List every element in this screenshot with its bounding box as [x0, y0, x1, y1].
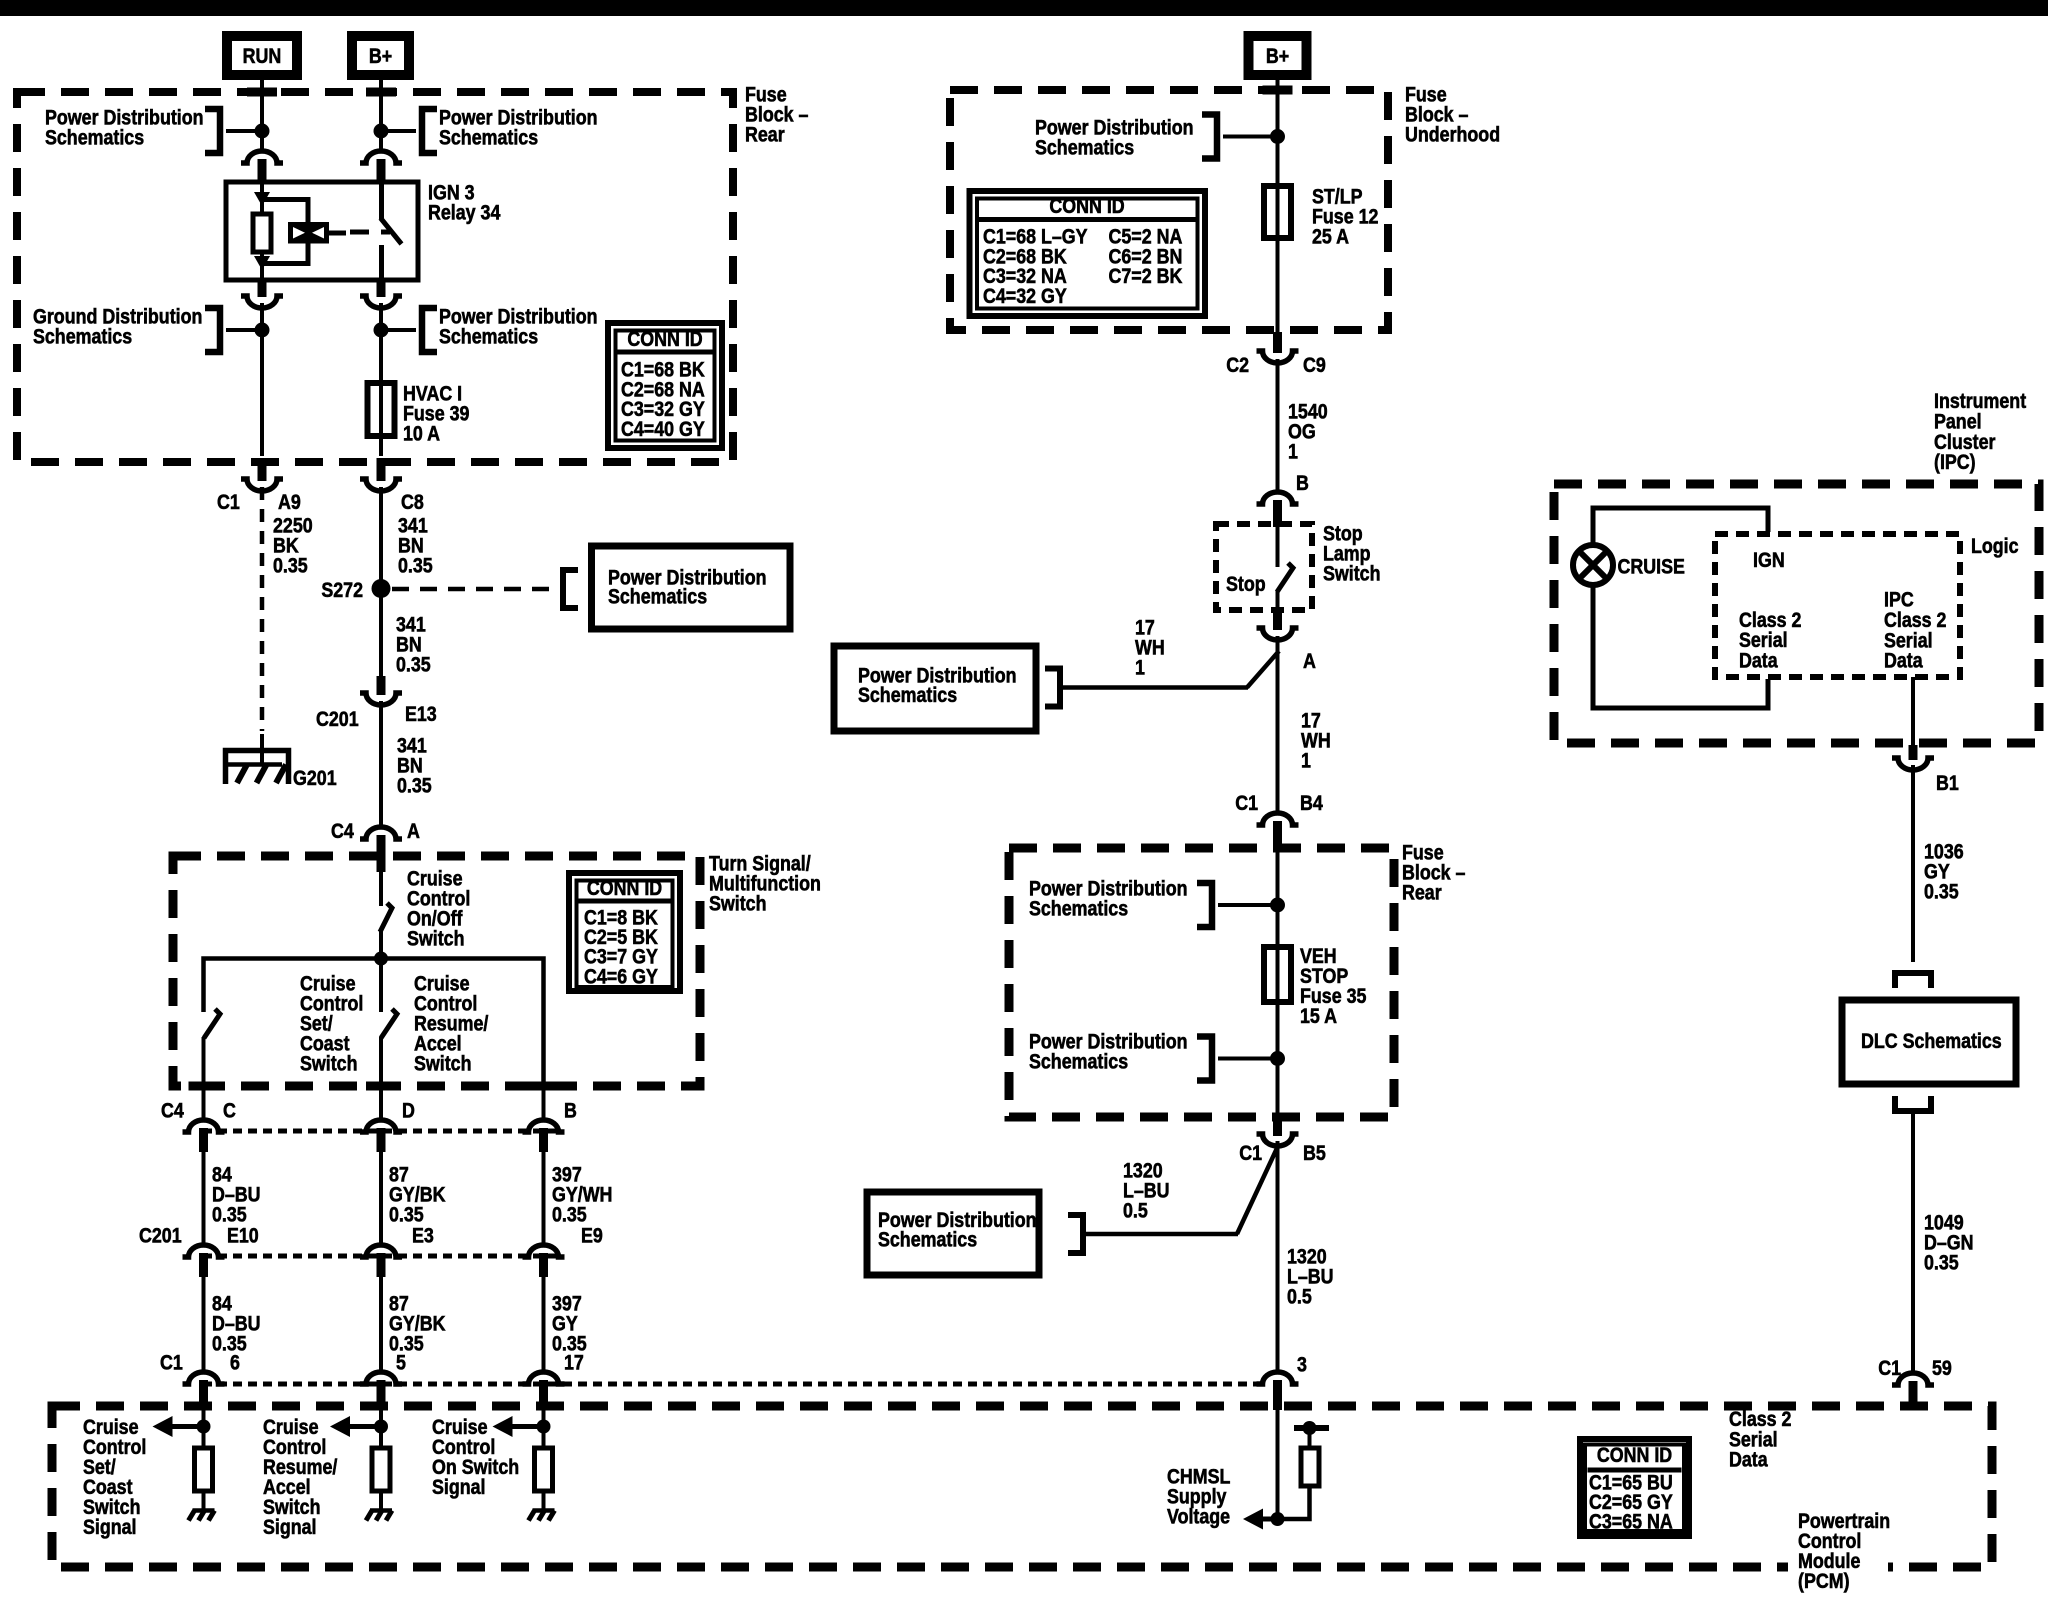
connector pin 17	[523, 1372, 565, 1384]
svg-text:C1: C1	[160, 1351, 183, 1375]
pcm input wire 1	[202, 1410, 206, 1448]
svg-text:(PCM): (PCM)	[1798, 1570, 1850, 1594]
relay coil link loop	[262, 200, 308, 223]
connector pin B1 out of IPC	[1909, 745, 1918, 760]
connector pin 6	[183, 1372, 225, 1384]
svg-text:Signal: Signal	[83, 1516, 137, 1540]
connector pin B into stop lamp switch	[1257, 492, 1299, 504]
connector table CONN ID (fuse block rear)	[608, 323, 722, 448]
cruise lamp circuit loop bottom	[1593, 584, 1768, 708]
svg-text:C3=65 NA: C3=65 NA	[1589, 1510, 1673, 1534]
svg-text:0.5: 0.5	[1123, 1199, 1148, 1223]
resume/accel switch lower wire	[379, 1037, 383, 1120]
stop lamp switch blade	[1277, 563, 1293, 592]
svg-text:C4=32 GY: C4=32 GY	[983, 285, 1067, 309]
node junction ground distribution	[255, 323, 270, 338]
svg-text:E9: E9	[581, 1224, 603, 1248]
svg-text:C1: C1	[217, 491, 240, 515]
stop lamp switch upper wire	[1276, 527, 1280, 567]
wire 1036 GY	[1911, 765, 1915, 962]
cruise resume/accel switch upper wire	[379, 958, 383, 1012]
wire to power distribution bracket 2	[381, 129, 416, 133]
wire 84 D-BU lower	[202, 1277, 206, 1373]
relay linkage dashed line	[350, 230, 390, 235]
wire relay to HVAC fuse	[379, 303, 383, 384]
wire 1320 L-BU horizontal	[1083, 1232, 1238, 1237]
svg-text:Data: Data	[1729, 1448, 1768, 1472]
powertrain control module box	[52, 1406, 1992, 1567]
svg-text:(IPC): (IPC)	[1934, 451, 1976, 475]
cruise set/coast switch blade	[204, 1009, 220, 1038]
svg-text:Schematics: Schematics	[33, 325, 132, 349]
chmsl pull-up resistor	[1301, 1448, 1319, 1486]
svg-text:DLC Schematics: DLC Schematics	[1861, 1030, 2002, 1054]
svg-text:1: 1	[1135, 656, 1145, 680]
relay linkage stub	[329, 231, 346, 236]
svg-text:E13: E13	[405, 703, 437, 727]
ground (pcm internal) 3	[533, 1508, 555, 1513]
node junction power distribution (rear top)	[1270, 898, 1285, 913]
wire fuse 12 to C2	[1276, 238, 1280, 332]
connector C4 pin A into multifunction switch	[360, 827, 402, 839]
svg-text:59: 59	[1932, 1357, 1952, 1381]
ipc serial data wire	[1911, 677, 1915, 745]
node junction B+ / power distribution	[374, 124, 389, 139]
relay coil arrow top	[254, 192, 270, 206]
signal arrow 2	[342, 1424, 381, 1429]
svg-text:Switch: Switch	[414, 1052, 471, 1076]
cruise control on/off switch blade	[380, 903, 392, 932]
node junction power distribution (rear bottom)	[1270, 1051, 1285, 1066]
svg-text:Schematics: Schematics	[858, 684, 957, 708]
wire 17 WH down to C1 B4	[1276, 636, 1280, 813]
connector C201 pin E13	[377, 676, 386, 695]
connector pin out of relay (switch side)	[377, 278, 386, 297]
wire 1540 OG	[1276, 359, 1280, 492]
wire 87 GY/BK lower	[379, 1277, 383, 1373]
svg-text:IGN: IGN	[1753, 549, 1785, 573]
svg-text:RUN: RUN	[243, 45, 282, 69]
cruise indicator lamp	[1573, 545, 1613, 585]
set/coast switch lower wire	[202, 1037, 206, 1120]
svg-text:B: B	[1296, 472, 1309, 496]
ground G201 symbol	[226, 751, 289, 785]
off-page bracket power distribution 1	[205, 109, 220, 153]
node junction on/off to bus	[374, 952, 388, 966]
relay switch lower wire	[379, 245, 384, 278]
svg-text:C: C	[223, 1099, 236, 1123]
svg-text:17: 17	[564, 1351, 584, 1375]
relay coil branch wire	[260, 184, 264, 214]
wire B+ feed (left)	[379, 80, 383, 150]
svg-text:Switch: Switch	[407, 927, 464, 951]
svg-text:A9: A9	[278, 491, 301, 515]
svg-text:Switch: Switch	[1323, 562, 1380, 586]
power terminal RUN	[227, 36, 297, 75]
svg-text:B5: B5	[1303, 1142, 1326, 1166]
svg-text:0.35: 0.35	[398, 554, 433, 578]
connector row C201 dotted line	[203, 1254, 560, 1259]
pull-up resistor 2	[372, 1448, 390, 1491]
turn signal multifunction switch box	[173, 856, 700, 1086]
relay switch blade	[381, 218, 402, 244]
reference box Power Distribution Schematics (S272)	[592, 546, 791, 629]
ground (pcm internal) 2	[370, 1508, 392, 1513]
wire B4 to fuse 35	[1276, 852, 1280, 947]
svg-text:C1: C1	[1239, 1142, 1262, 1166]
node junction pcm signal 2	[374, 1420, 388, 1434]
off-page bracket power distribution 3	[422, 308, 437, 352]
svg-text:0.35: 0.35	[396, 653, 431, 677]
svg-text:Data: Data	[1739, 649, 1778, 673]
pull-up resistor 1	[195, 1448, 213, 1491]
fuse block - rear box (left)	[17, 92, 733, 462]
relay coil arrow bottom	[254, 256, 270, 270]
node junction power distribution 3	[374, 323, 389, 338]
connector table CONN ID (underhood)	[970, 191, 1206, 316]
wire fuse 35 to C1 B5	[1276, 1002, 1280, 1113]
splice S272	[372, 579, 391, 598]
wire 397 GY/WH upper	[542, 1152, 546, 1246]
off-page bracket (17 WH)	[1045, 669, 1060, 707]
signal arrow 3	[505, 1424, 544, 1429]
svg-text:C8: C8	[401, 491, 424, 515]
fuse block - underhood box	[950, 90, 1388, 330]
wire to power distribution bracket 3	[381, 328, 416, 332]
stop lamp switch lower wire	[1276, 591, 1280, 608]
svg-text:C4: C4	[331, 820, 354, 844]
svg-text:1: 1	[1301, 749, 1311, 773]
svg-text:CONN ID: CONN ID	[1049, 195, 1124, 219]
fuse F12 ST/LP	[1264, 186, 1291, 238]
wire 17 WH horizontal	[1060, 685, 1248, 690]
fuse F35 VEH STOP	[1264, 947, 1291, 1002]
wire RUN feed	[260, 80, 264, 150]
wire B column to connector	[542, 1086, 546, 1120]
svg-text:B4: B4	[1300, 792, 1323, 816]
svg-text:A: A	[1303, 650, 1316, 674]
connector pin C	[183, 1120, 225, 1132]
svg-text:C4=6 GY: C4=6 GY	[584, 965, 658, 989]
wire to bracket (rear bottom)	[1218, 1057, 1278, 1061]
node junction pcm signal 3	[537, 1420, 551, 1434]
connector pin 3 into PCM	[1257, 1372, 1299, 1384]
top border bar	[0, 0, 2048, 16]
svg-text:6: 6	[230, 1351, 240, 1375]
svg-text:E10: E10	[227, 1224, 259, 1248]
svg-text:S272: S272	[321, 579, 363, 603]
connector C8 pin out of fuse block	[377, 458, 386, 481]
chmsl resistor top lead	[1308, 1428, 1312, 1448]
node junction pcm signal 1	[197, 1420, 211, 1434]
off-page bracket power distribution 2	[422, 109, 437, 153]
dlc top bracket	[1895, 973, 1931, 988]
svg-text:0.5: 0.5	[1287, 1285, 1312, 1309]
svg-text:Data: Data	[1884, 649, 1923, 673]
svg-text:Underhood: Underhood	[1405, 123, 1500, 147]
wire 84 D-BU upper	[202, 1152, 206, 1246]
svg-text:15 A: 15 A	[1300, 1004, 1337, 1028]
connector row C4 dotted line	[203, 1129, 560, 1134]
reference box Power Distribution Schematics (1320)	[867, 1192, 1039, 1275]
svg-text:Schematics: Schematics	[45, 126, 144, 150]
power terminal B+ (middle)	[1249, 36, 1307, 75]
svg-text:10 A: 10 A	[403, 422, 440, 446]
pcm input wire 2	[379, 1410, 383, 1448]
svg-text:Switch: Switch	[300, 1052, 357, 1076]
svg-text:C1: C1	[1235, 792, 1258, 816]
svg-text:Rear: Rear	[745, 123, 785, 147]
svg-text:A: A	[407, 820, 420, 844]
chmsl resistor terminal bar	[1294, 1425, 1329, 1431]
connector pin E10	[183, 1245, 225, 1257]
ground (pcm internal) 1	[193, 1508, 215, 1513]
cruise on/off switch lower wire	[379, 930, 383, 958]
svg-text:Schematics: Schematics	[1029, 1050, 1128, 1074]
relay switch upper wire	[379, 184, 384, 219]
connector C2 pin C9 out of underhood block	[1273, 332, 1282, 353]
svg-text:B: B	[564, 1099, 577, 1123]
connector pin B	[523, 1120, 565, 1132]
off-page bracket power distribution (rear top)	[1197, 883, 1212, 927]
connector pin into relay (switch side)	[360, 151, 402, 163]
wire 341 BN middle	[379, 593, 383, 676]
dashed reference line from S272	[392, 587, 553, 592]
svg-text:Signal: Signal	[432, 1476, 486, 1500]
svg-text:5: 5	[396, 1351, 406, 1375]
resistor lead 1	[202, 1491, 206, 1509]
svg-text:CRUISE: CRUISE	[1618, 555, 1685, 579]
svg-text:Schematics: Schematics	[1035, 136, 1134, 160]
svg-text:Schematics: Schematics	[878, 1228, 977, 1252]
wire relay to ground distribution node	[260, 303, 264, 456]
off-page bracket power distribution (underhood)	[1202, 115, 1217, 159]
cruise resume/accel switch blade	[381, 1009, 397, 1038]
wire 17 WH diagonal	[1247, 651, 1279, 688]
fuse block - rear box (middle)	[1009, 848, 1394, 1117]
wire to power distribution bracket	[226, 129, 262, 133]
svg-text:Schematics: Schematics	[608, 585, 707, 609]
off-page bracket S272 power distribution	[563, 570, 578, 608]
svg-text:0.35: 0.35	[389, 1332, 424, 1356]
svg-text:Voltage: Voltage	[1167, 1505, 1230, 1529]
svg-text:C4: C4	[161, 1099, 184, 1123]
svg-text:C2: C2	[1226, 354, 1249, 378]
svg-text:Switch: Switch	[709, 892, 766, 916]
relay K34 IGN 3 box	[226, 182, 418, 280]
reference box Power Distribution Schematics (17 WH)	[834, 646, 1036, 731]
relay coil wire lower	[260, 252, 264, 278]
svg-text:3: 3	[1297, 1353, 1307, 1377]
connector row C1 dotted line	[203, 1382, 1262, 1387]
resistor lead 2	[379, 1491, 383, 1509]
relay coil resistor	[253, 214, 271, 252]
off-page bracket ground distribution	[205, 308, 220, 352]
connector pin E9	[523, 1245, 565, 1257]
wire 1320 L-BU diagonal	[1237, 1146, 1278, 1234]
instrument panel cluster box	[1554, 484, 2039, 743]
svg-text:B1: B1	[1936, 772, 1959, 796]
cruise lamp circuit loop top	[1593, 508, 1768, 546]
wire B+ feed (middle)	[1276, 80, 1280, 186]
power terminal B+ (left)	[352, 36, 409, 75]
svg-text:0.35: 0.35	[273, 554, 308, 578]
svg-text:Schematics: Schematics	[439, 126, 538, 150]
connector C1 pin 59 into PCM	[1892, 1373, 1934, 1385]
svg-text:Schematics: Schematics	[1029, 897, 1128, 921]
wire into ground	[260, 734, 264, 764]
chmsl arrow	[1255, 1517, 1278, 1522]
pcm input wire 3	[542, 1410, 546, 1448]
ipc logic box	[1715, 534, 1960, 677]
svg-text:Relay 34: Relay 34	[428, 201, 501, 225]
wire 1049 D-GN	[1911, 1111, 1915, 1374]
svg-text:D: D	[402, 1099, 415, 1123]
wire to ground distribution bracket	[226, 328, 262, 332]
connector pin out of relay (coil side)	[258, 278, 267, 297]
svg-text:C7=2 BK: C7=2 BK	[1109, 265, 1183, 289]
svg-text:CONN ID: CONN ID	[1597, 1444, 1672, 1468]
connector table CONN ID (multifunction switch)	[569, 873, 680, 991]
svg-text:0.35: 0.35	[1924, 1251, 1959, 1275]
connector pin D	[360, 1120, 402, 1132]
svg-text:B+: B+	[369, 45, 392, 69]
connector pin 5	[360, 1372, 402, 1384]
reference box DLC Schematics	[1842, 1000, 2016, 1084]
svg-text:Schematics: Schematics	[439, 325, 538, 349]
svg-text:E3: E3	[412, 1224, 434, 1248]
connector pin into relay (coil side)	[241, 151, 283, 163]
relay armature box with X	[288, 222, 329, 244]
node junction B+ / power distribution (underhood)	[1270, 129, 1285, 144]
pcm chmsl wire	[1276, 1410, 1280, 1519]
svg-text:C201: C201	[316, 708, 359, 732]
wire 341 BN upper	[379, 487, 383, 584]
wire 341 BN lower	[379, 701, 383, 827]
svg-text:25 A: 25 A	[1312, 225, 1349, 249]
node junction chmsl resistor top	[1303, 1421, 1317, 1435]
svg-text:Signal: Signal	[263, 1516, 317, 1540]
svg-text:Stop: Stop	[1226, 573, 1266, 597]
dlc bottom bracket	[1895, 1096, 1931, 1111]
svg-text:C201: C201	[139, 1224, 182, 1248]
svg-text:CONN ID: CONN ID	[587, 877, 662, 901]
resistor lead 3	[542, 1491, 546, 1509]
svg-text:Rear: Rear	[1402, 881, 1442, 905]
wire HVAC fuse to C8	[379, 436, 383, 456]
signal arrow 1	[165, 1424, 204, 1429]
off-page bracket power distribution (rear bottom)	[1197, 1037, 1212, 1081]
connector pin A out of stop lamp switch	[1273, 608, 1282, 630]
connector C1 pin B5 out of fuse block rear	[1273, 1113, 1282, 1136]
svg-text:G201: G201	[293, 767, 337, 791]
svg-text:1: 1	[1288, 440, 1298, 464]
svg-text:C1: C1	[1878, 1357, 1901, 1381]
svg-text:C9: C9	[1303, 354, 1326, 378]
fuse F39 HVAC I	[368, 383, 395, 436]
node junction chmsl	[1271, 1512, 1285, 1526]
switch bus wire	[204, 959, 544, 1088]
pull-up resistor 3	[535, 1448, 553, 1491]
cruise on/off switch upper wire	[379, 870, 383, 906]
connector C1 pin B4 into fuse block rear	[1257, 813, 1299, 825]
node junction RUN / power distribution	[255, 124, 270, 139]
wire to power distribution bracket (underhood)	[1223, 135, 1278, 139]
svg-text:C4=40 GY: C4=40 GY	[621, 418, 705, 442]
chmsl resistor bottom lead	[1278, 1486, 1310, 1519]
wire 1320 L-BU down	[1276, 1141, 1280, 1373]
connector pin E3	[360, 1245, 402, 1257]
svg-text:CONN ID: CONN ID	[627, 328, 702, 352]
wire 397 GY lower	[542, 1277, 546, 1373]
svg-text:0.35: 0.35	[397, 774, 432, 798]
off-page bracket (1320)	[1068, 1215, 1083, 1253]
svg-text:0.35: 0.35	[1924, 880, 1959, 904]
svg-text:Logic: Logic	[1971, 535, 2019, 559]
wire 87 GY/BK upper	[379, 1152, 383, 1246]
connector table CONN ID (PCM)	[1580, 1439, 1689, 1536]
wire to bracket (rear top)	[1218, 903, 1278, 907]
stop lamp switch box	[1216, 524, 1312, 610]
wire 2250 BK dashed to G201	[260, 487, 265, 731]
svg-text:B+: B+	[1266, 45, 1289, 69]
connector C1 pin A9 out of fuse block	[258, 458, 267, 481]
